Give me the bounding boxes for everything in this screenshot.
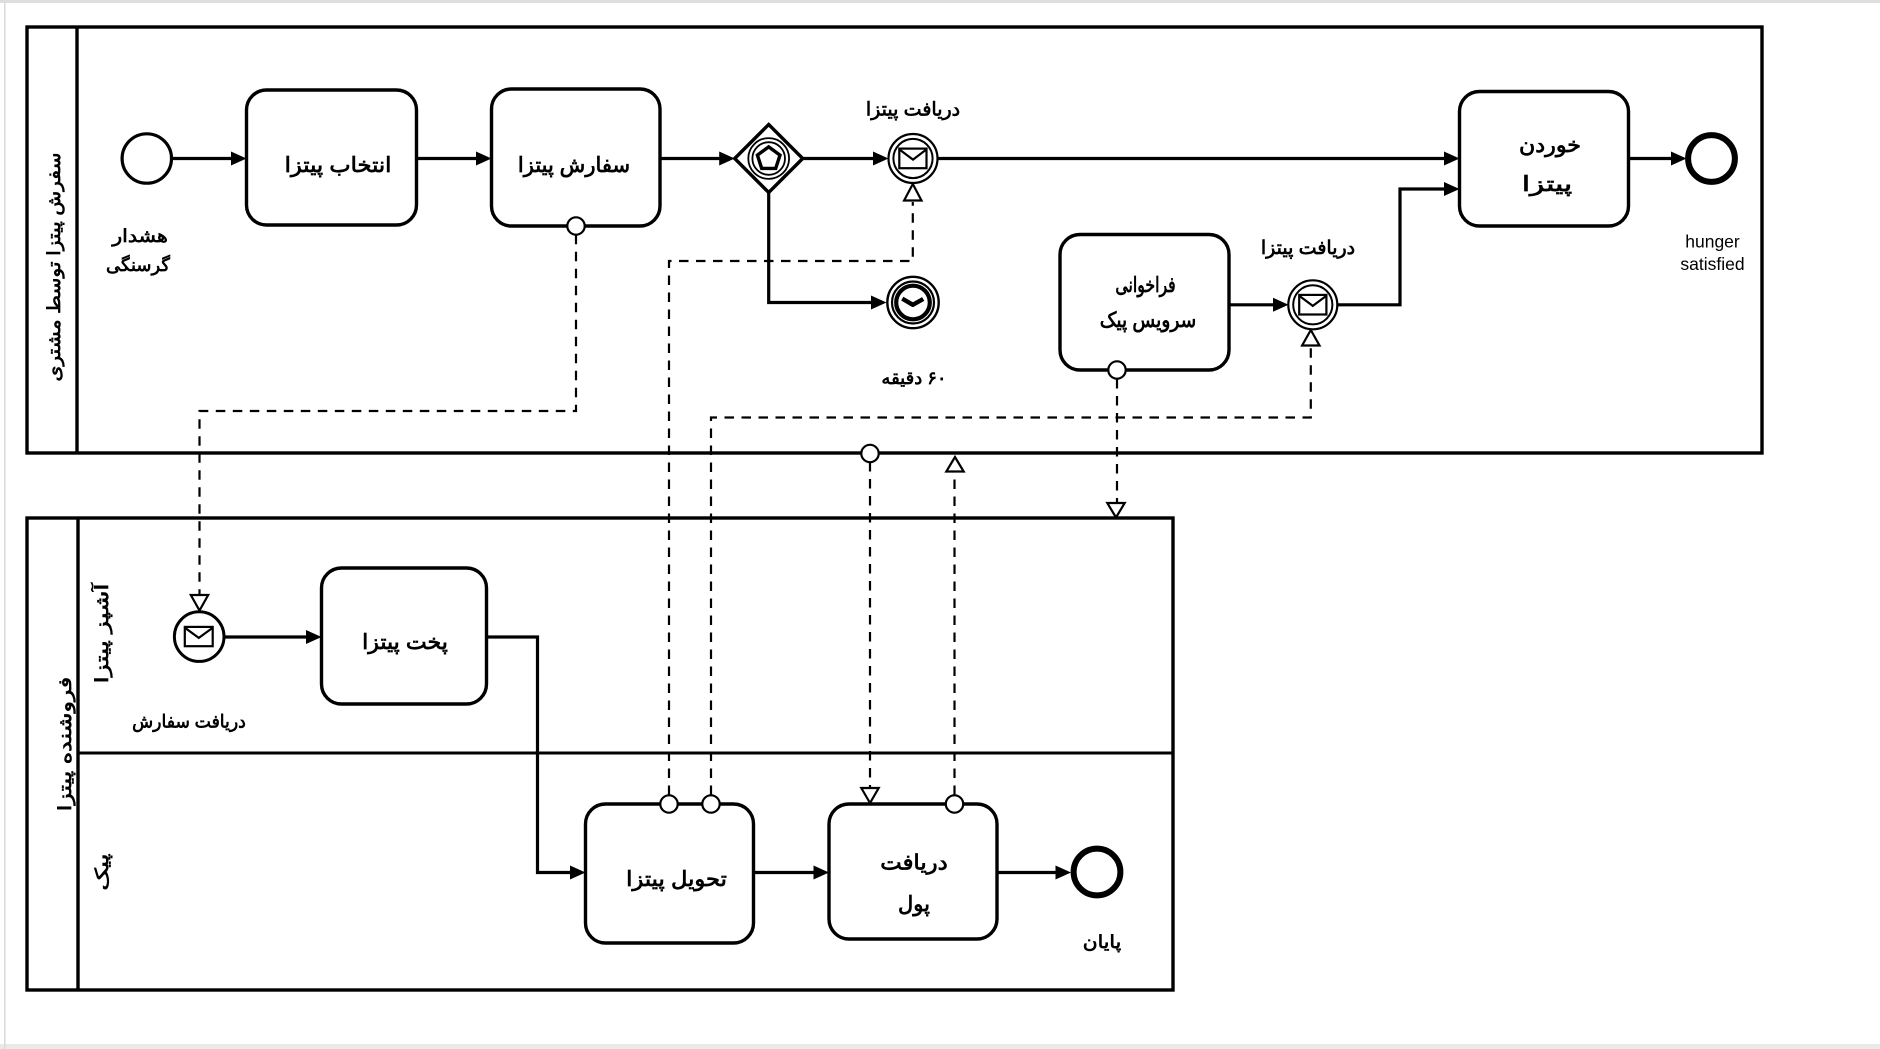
message start event receive order	[174, 612, 224, 662]
wire sequence flow event E2 to task eat	[1337, 182, 1460, 305]
task T2 order pizza	[492, 89, 661, 226]
wire sequence flow task call to event E2	[1229, 298, 1289, 312]
svg-text:hunger: hunger	[1685, 232, 1740, 252]
wire sequence flow task bake to task deliver	[487, 637, 586, 880]
wire sequence flow task1 to task2	[417, 152, 492, 166]
message flow M3 deliver to receive-pizza E2	[702, 330, 1319, 813]
task T4 eat pizza	[1460, 92, 1629, 227]
svg-text:پیتزا: پیتزا	[1522, 173, 1572, 197]
svg-text:گرسنگی: گرسنگی	[106, 254, 170, 276]
svg-text:تحویل پیتزا: تحویل پیتزا	[626, 867, 727, 893]
svg-text:هشدار: هشدار	[110, 227, 168, 247]
lane divider	[78, 752, 1173, 755]
svg-text:satisfied: satisfied	[1680, 254, 1744, 274]
end event E4 payan	[1074, 849, 1121, 896]
svg-text:انتخاب پیتزا: انتخاب پیتزا	[285, 153, 392, 179]
event E1 message catch receive pizza	[889, 134, 938, 183]
wire sequence flow msg start to task bake	[224, 630, 322, 644]
pool P2 vendor	[27, 518, 1173, 990]
page frame left line	[4, 0, 6, 1049]
wire sequence flow start to task1	[172, 152, 247, 166]
task T3 call courier service	[1060, 235, 1229, 371]
svg-text:پیک: پیک	[92, 853, 114, 890]
start event hunger	[122, 134, 171, 183]
svg-text:پخت پیتزا: پخت پیتزا	[362, 630, 448, 655]
wire sequence flow task2 to gateway	[660, 152, 735, 166]
page frame bottom band	[0, 1044, 1880, 1049]
wire sequence flow task money to end E4	[997, 866, 1071, 880]
gateway G1 event-based	[735, 125, 803, 193]
wire sequence flow gateway down to timer	[769, 193, 887, 310]
wire sequence flow task eat to end E3	[1629, 152, 1687, 166]
svg-text:پایان: پایان	[1083, 933, 1122, 953]
page frame top band	[0, 0, 1880, 3]
svg-text:پول: پول	[898, 893, 930, 917]
task T7 receive money	[829, 804, 997, 939]
svg-text:۶۰ دقیقه: ۶۰ دقیقه	[881, 368, 946, 388]
svg-text:سفرش پیتزا توسط مشتری: سفرش پیتزا توسط مشتری	[45, 152, 66, 381]
wire sequence flow gateway to event E1	[803, 152, 889, 166]
message flow M1 order pizza (task2 to msg start)	[191, 217, 585, 610]
task T6 deliver pizza	[586, 804, 754, 943]
svg-text:دریافت پیتزا: دریافت پیتزا	[1261, 238, 1355, 259]
task T5 bake pizza	[322, 568, 487, 704]
end event E3 hunger satisfied	[1688, 135, 1735, 182]
svg-text:خوردن: خوردن	[1519, 133, 1581, 158]
svg-text:فروشنده پیتزا: فروشنده پیتزا	[56, 677, 77, 811]
event E2 message catch receive pizza	[1288, 280, 1337, 329]
pool P1 customer	[27, 27, 1762, 453]
message flow M4 call service to courier pool	[1107, 361, 1125, 517]
svg-text:سرویس پیک: سرویس پیک	[1100, 309, 1196, 333]
svg-text:دریافت پیتزا: دریافت پیتزا	[866, 100, 960, 121]
task T1 choose pizza	[247, 90, 417, 225]
message flow M6 money task to customer	[946, 457, 964, 813]
svg-text:فراخوانی: فراخوانی	[1115, 273, 1175, 298]
timer event T60	[887, 277, 938, 328]
svg-text:سفارش پیتزا: سفارش پیتزا	[518, 154, 630, 178]
wire sequence flow task deliver to task money	[754, 866, 830, 880]
message flow M5 customer pays money	[861, 445, 878, 803]
svg-text:دریافت: دریافت	[880, 850, 947, 875]
message flow M2 deliver to receive-pizza E1	[660, 184, 921, 813]
wire sequence flow event E1 to task eat	[938, 152, 1460, 166]
svg-text:دریافت سفارش: دریافت سفارش	[132, 711, 246, 732]
svg-text:آشپز پیتزا: آشپز پیتزا	[90, 581, 114, 683]
